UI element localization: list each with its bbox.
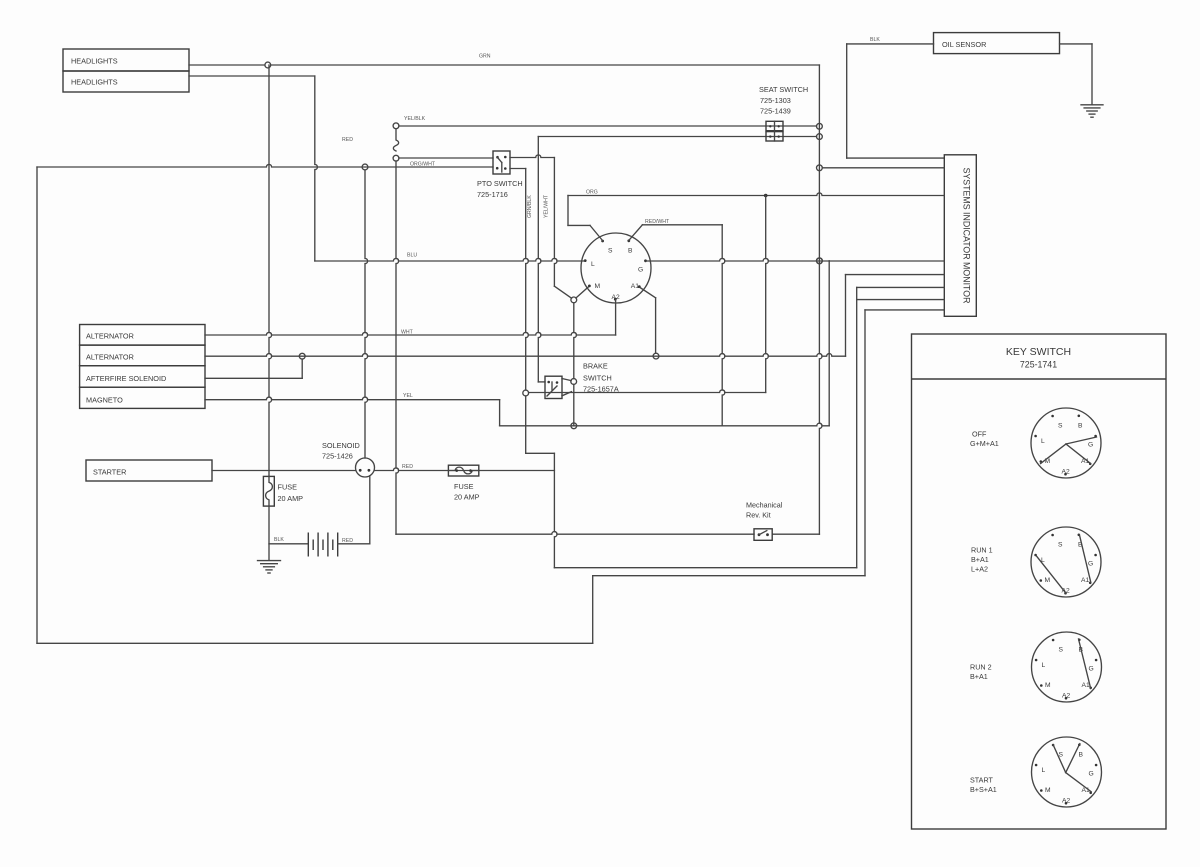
ignition switch circle (main) — [581, 233, 651, 303]
svg-text:725-1716: 725-1716 — [477, 190, 508, 199]
svg-text:725-1303: 725-1303 — [760, 96, 791, 105]
wire GRN headlights — [189, 64, 265, 66]
svg-text:HEADLIGHTS: HEADLIGHTS — [71, 78, 118, 87]
svg-text:ALTERNATOR: ALTERNATOR — [86, 332, 134, 341]
alternator box ALTERNATOR 2 — [80, 345, 205, 366]
svg-text:L: L — [1042, 767, 1046, 774]
wire WHT alternator1 to ignition A2 — [205, 332, 616, 335]
svg-text:A2: A2 — [1062, 693, 1070, 700]
brake switch box 725-1657A — [545, 376, 562, 398]
svg-text:Mechanical: Mechanical — [746, 501, 783, 510]
solenoid 725-1426 — [356, 458, 375, 477]
svg-text:A2: A2 — [1062, 798, 1070, 805]
svg-text:M: M — [1045, 787, 1051, 794]
seat switch connector symbol — [766, 121, 783, 130]
svg-text:A2: A2 — [1062, 469, 1070, 476]
wire YEL/WHT from PTO to ignition M — [510, 155, 554, 158]
magneto box — [80, 387, 205, 408]
svg-text:AFTERFIRE SOLENOID: AFTERFIRE SOLENOID — [86, 374, 166, 383]
svg-text:M: M — [1045, 682, 1051, 689]
brake switch right pigtail — [571, 379, 577, 385]
wire RED/WHT from ignition B — [629, 225, 643, 241]
mechanical rev switch — [754, 529, 772, 541]
svg-text:SYSTEMS INDICATOR MONITOR: SYSTEMS INDICATOR MONITOR — [962, 168, 972, 304]
svg-text:G+M+A1: G+M+A1 — [970, 439, 999, 448]
PTO switch box — [493, 151, 510, 174]
svg-text:YEL/BLK: YEL/BLK — [404, 116, 426, 122]
svg-text:B: B — [628, 248, 633, 255]
alternator box ALTERNATOR 1 — [80, 325, 205, 346]
svg-text:L: L — [591, 261, 595, 268]
wire from ignition G to monitor — [646, 258, 944, 261]
svg-text:B+S+A1: B+S+A1 — [970, 785, 997, 794]
key switch position OFF — [1031, 408, 1101, 478]
key switch position START — [1032, 737, 1102, 807]
svg-text:RED: RED — [342, 137, 353, 143]
svg-text:KEY SWITCH: KEY SWITCH — [1006, 346, 1071, 358]
svg-text:S: S — [608, 248, 613, 255]
svg-text:RED/WHT: RED/WHT — [645, 219, 670, 225]
svg-text:725-1741: 725-1741 — [1020, 360, 1057, 370]
svg-text:FUSE: FUSE — [454, 482, 474, 491]
svg-text:725-1439: 725-1439 — [760, 107, 791, 116]
afterfire solenoid box — [80, 366, 205, 388]
svg-text:BLK: BLK — [274, 537, 284, 543]
wire fuse to ground + battery BLK — [268, 506, 270, 560]
svg-text:ORG: ORG — [586, 190, 598, 196]
svg-text:FUSE: FUSE — [278, 483, 298, 492]
svg-text:RUN 2: RUN 2 — [970, 663, 992, 672]
svg-text:B+A1: B+A1 — [971, 555, 989, 564]
svg-text:BRAKE: BRAKE — [583, 362, 608, 371]
svg-text:B: B — [1078, 423, 1083, 430]
svg-text:S: S — [1058, 423, 1063, 430]
key switch position RUN 2 — [1032, 632, 1102, 702]
wire YEL magneto — [205, 397, 500, 400]
junction dot ORG x brake riser — [764, 194, 768, 198]
svg-text:G: G — [1089, 771, 1094, 778]
svg-text:RED: RED — [402, 464, 413, 470]
wire RED starter run — [212, 470, 356, 472]
svg-text:BLK: BLK — [870, 37, 880, 43]
wire PTO trunk vertical — [396, 161, 399, 534]
svg-text:BLU: BLU — [407, 253, 417, 259]
svg-text:SEAT SWITCH: SEAT SWITCH — [759, 85, 808, 94]
svg-text:GRN: GRN — [479, 54, 491, 60]
svg-text:B+A1: B+A1 — [970, 672, 988, 681]
svg-text:S: S — [1058, 542, 1063, 549]
svg-text:WHT: WHT — [401, 330, 414, 336]
wire PTO switch top feed — [399, 157, 493, 159]
svg-text:HEADLIGHTS: HEADLIGHTS — [71, 57, 118, 66]
wire A1 to alternator2 line — [640, 288, 656, 298]
connector circle on ORG/WHT — [362, 164, 368, 170]
svg-text:START: START — [970, 776, 994, 785]
ground (battery) — [258, 560, 281, 562]
systems indicator monitor box — [944, 155, 976, 316]
svg-text:RUN 1: RUN 1 — [971, 546, 993, 555]
svg-text:725-1426: 725-1426 — [322, 452, 353, 461]
wire ORG to ignition S — [567, 196, 569, 226]
wire battery RED to solenoid — [338, 543, 370, 545]
wire YEL/BLK with connector — [393, 123, 399, 129]
svg-text:20 AMP: 20 AMP — [454, 493, 480, 502]
svg-text:YEL/WHT: YEL/WHT — [544, 194, 550, 218]
wire BLU to ignition L — [315, 258, 585, 261]
svg-text:M: M — [595, 283, 601, 290]
battery — [307, 533, 309, 557]
svg-text:OFF: OFF — [972, 430, 987, 439]
wire ORG/WHT big loop (monitor to PTO) — [865, 309, 944, 311]
svg-text:G: G — [1089, 666, 1094, 673]
fuse 20 amp (horizontal) — [448, 465, 478, 476]
svg-text:G: G — [638, 267, 643, 274]
svg-text:G: G — [1088, 442, 1093, 449]
svg-text:ALTERNATOR: ALTERNATOR — [86, 353, 134, 362]
svg-text:B: B — [1079, 752, 1084, 759]
svg-text:L+A2: L+A2 — [971, 565, 988, 574]
wire BLK oil sensor to monitor — [847, 43, 934, 45]
svg-text:SWITCH: SWITCH — [583, 374, 612, 383]
svg-text:A1: A1 — [631, 283, 639, 290]
svg-text:RED: RED — [342, 538, 353, 544]
wire afterfire solenoid — [205, 377, 302, 379]
key switch position RUN 1 — [1031, 527, 1101, 597]
wire RED headlight 2 — [189, 75, 315, 77]
svg-text:S: S — [1059, 647, 1064, 654]
svg-text:L: L — [1042, 662, 1046, 669]
svg-text:G: G — [1088, 561, 1093, 568]
svg-text:A1: A1 — [1081, 577, 1089, 584]
wire GRN/BLK from PTO to brake switch — [510, 168, 526, 170]
wire mechanical reverse line — [396, 532, 754, 535]
node circles on GRN trunk — [817, 123, 823, 129]
wire brake switch to riser — [529, 390, 766, 393]
wire alternator2 to monitor — [205, 354, 846, 357]
headlight box HEADLIGHTS (top) — [63, 49, 189, 71]
wire GRN vertical (right trunk) — [819, 65, 822, 534]
oil sensor box — [934, 33, 1060, 54]
svg-text:SOLENOID: SOLENOID — [322, 441, 360, 450]
starter box — [86, 460, 212, 481]
svg-text:STARTER: STARTER — [93, 468, 126, 477]
wire M to junction circle — [576, 287, 588, 298]
fuse 20 amp (vertical) — [269, 65, 272, 476]
wire oil sensor to ground — [1060, 43, 1092, 45]
wire seat switch lower line to brake switch — [538, 136, 816, 138]
svg-text:OIL SENSOR: OIL SENSOR — [942, 40, 986, 49]
svg-text:Rev. Kit: Rev. Kit — [746, 511, 771, 520]
svg-text:GRN/BLK: GRN/BLK — [527, 195, 533, 218]
svg-text:ORG/WHT: ORG/WHT — [410, 162, 436, 168]
svg-text:L: L — [1041, 438, 1045, 445]
svg-text:MAGNETO: MAGNETO — [86, 396, 123, 405]
svg-text:YEL: YEL — [403, 393, 413, 399]
headlight box HEADLIGHTS (bottom) — [63, 71, 189, 92]
ground (oil sensor) — [1081, 104, 1103, 106]
svg-text:M: M — [1045, 577, 1051, 584]
key switch box 725-1741 — [912, 334, 1167, 829]
wire monitor line y167.8 — [822, 167, 944, 169]
wire GRN/BLK lower run to monitor — [525, 396, 527, 453]
svg-text:PTO SWITCH: PTO SWITCH — [477, 179, 523, 188]
svg-text:20 AMP: 20 AMP — [278, 494, 304, 503]
